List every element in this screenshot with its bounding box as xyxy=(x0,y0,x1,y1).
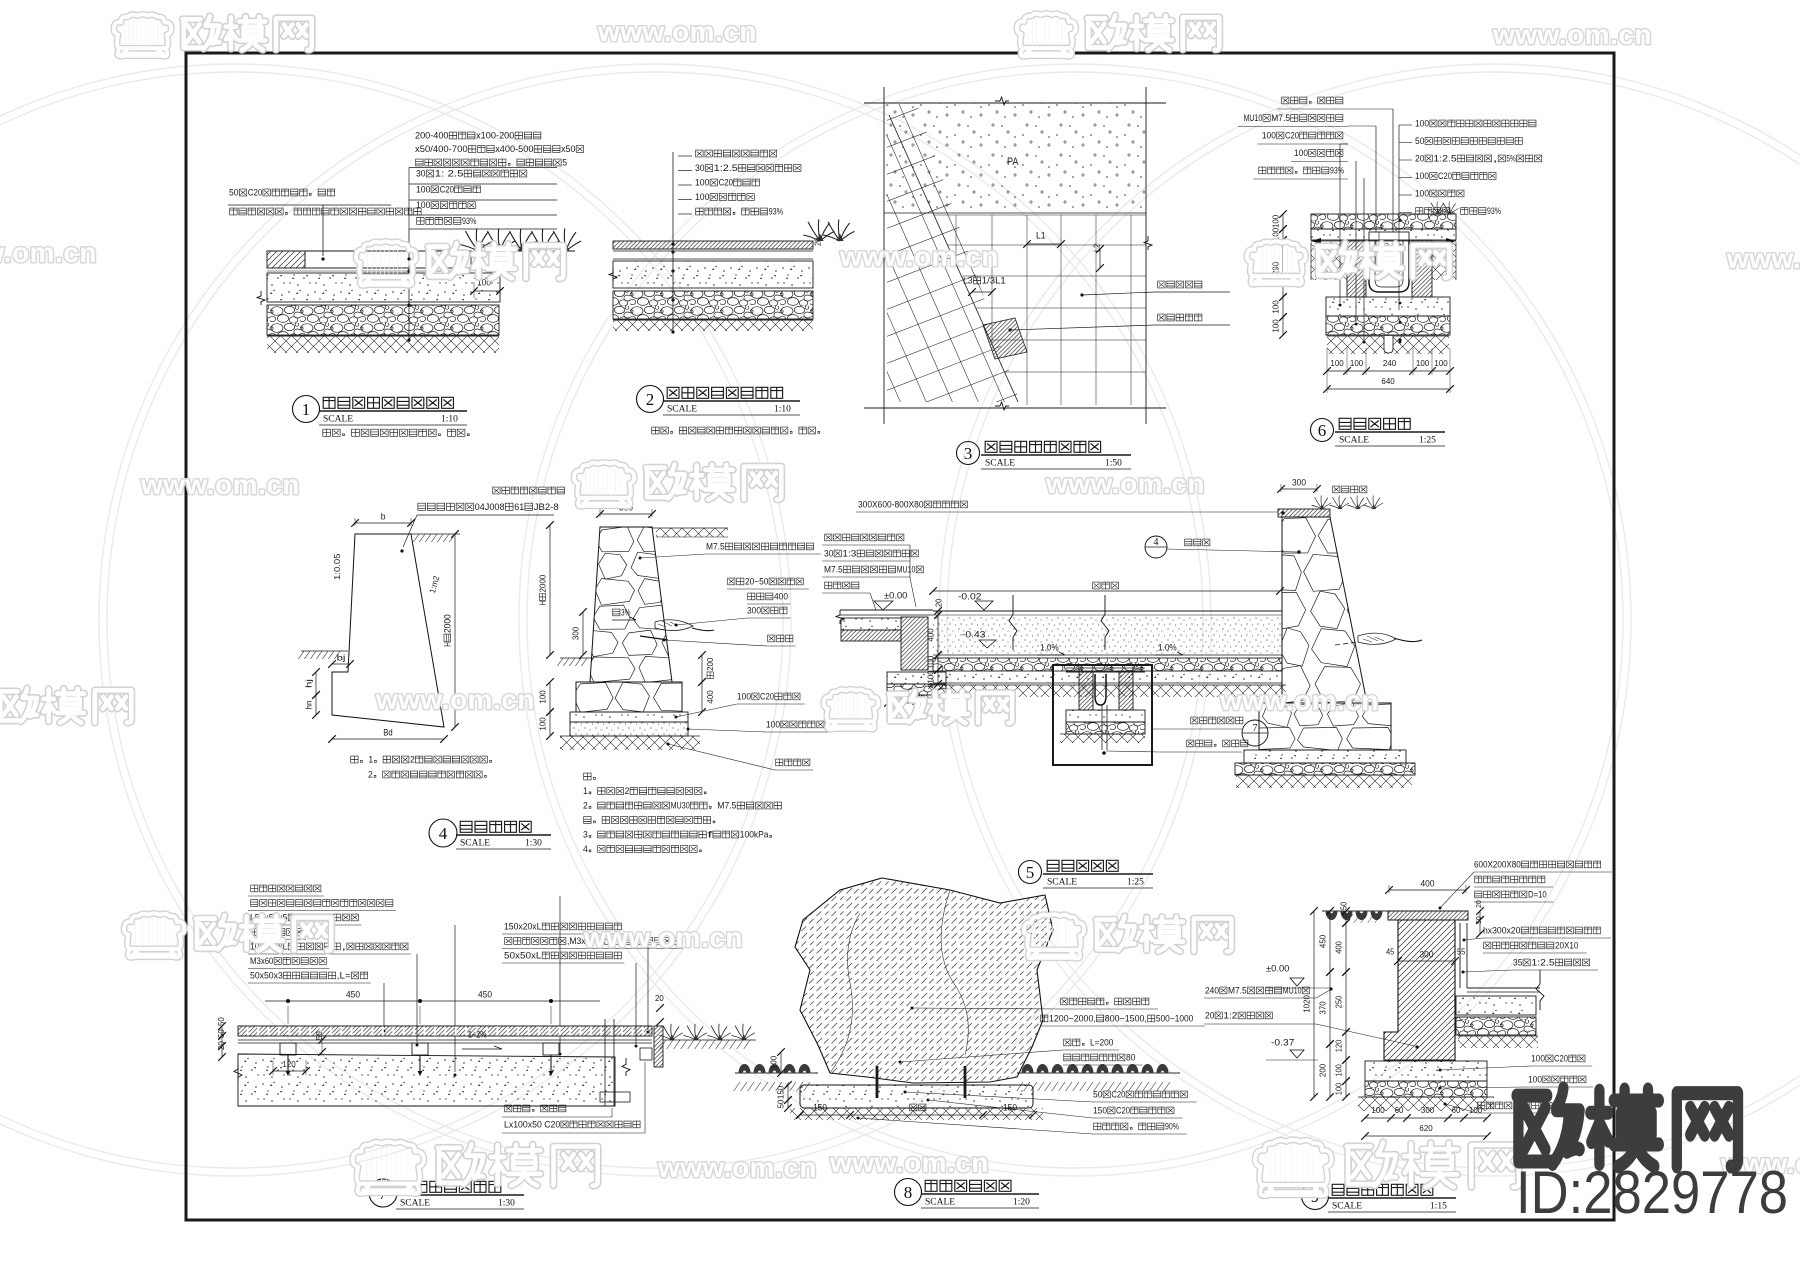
grass xyxy=(505,229,538,252)
svg-text:100: 100 xyxy=(1330,358,1344,368)
svg-text:C20: C20 xyxy=(1111,1089,1125,1099)
svg-text:1:15: 1:15 xyxy=(1430,1202,1447,1212)
ground line xyxy=(1311,240,1456,242)
drain pipes xyxy=(604,1019,606,1106)
svg-text:1020: 1020 xyxy=(1301,995,1311,1013)
svg-text:90%: 90% xyxy=(1165,1121,1179,1131)
svg-text:100: 100 xyxy=(1270,319,1280,333)
svg-text:50: 50 xyxy=(775,1099,785,1108)
svg-text:500~1000: 500~1000 xyxy=(1156,1013,1193,1023)
svg-text:b: b xyxy=(381,511,386,521)
svg-text:93%: 93% xyxy=(769,207,783,217)
concrete slab xyxy=(238,1054,615,1106)
svg-text:L1: L1 xyxy=(1036,231,1046,241)
svg-text:300: 300 xyxy=(1420,949,1434,959)
svg-text:450: 450 xyxy=(478,989,492,999)
svg-text:50: 50 xyxy=(216,1017,226,1026)
svg-text:240: 240 xyxy=(1383,358,1397,368)
joists and bolts xyxy=(280,1043,296,1055)
svg-text:400: 400 xyxy=(1334,941,1343,954)
svg-text:www.om.cn: www.om.cn xyxy=(583,922,743,953)
svg-text:400: 400 xyxy=(705,690,715,704)
title 4 xyxy=(429,819,457,847)
svg-text:100: 100 xyxy=(1270,300,1280,314)
svg-text:300: 300 xyxy=(747,605,761,615)
svg-text:5: 5 xyxy=(1026,863,1035,882)
svg-text:1:25: 1:25 xyxy=(1419,436,1436,446)
svg-text:1:2.5: 1:2.5 xyxy=(1531,957,1554,967)
svg-text:1:2.5: 1:2.5 xyxy=(1433,153,1456,163)
wall body xyxy=(1384,920,1455,1060)
detail 6: sandpit drainage channel xyxy=(1282,97,1343,104)
svg-text:1: 1 xyxy=(368,755,373,765)
steel pins xyxy=(876,1066,879,1098)
detail 3: paving enlarged plan xyxy=(864,102,1166,104)
grass xyxy=(461,229,494,252)
svg-text:x100-200: x100-200 xyxy=(476,131,514,141)
svg-text:450: 450 xyxy=(1317,935,1327,949)
svg-text:55: 55 xyxy=(1457,948,1466,957)
svg-text:,L=: ,L= xyxy=(337,970,351,980)
svg-text:50: 50 xyxy=(1093,1089,1102,1099)
svg-text:1: 1 xyxy=(583,786,588,796)
title 9 xyxy=(1302,1183,1329,1210)
svg-text:100: 100 xyxy=(1334,1064,1343,1077)
svg-text:7: 7 xyxy=(1253,723,1258,734)
ground line right xyxy=(411,533,460,535)
svg-text:Lx100x50 C20: Lx100x50 C20 xyxy=(504,1119,560,1129)
svg-text:100: 100 xyxy=(768,1056,778,1070)
mortar layer xyxy=(267,267,471,269)
concrete pad xyxy=(800,1085,1033,1108)
svg-text:60: 60 xyxy=(1395,1105,1404,1115)
svg-text:50: 50 xyxy=(314,1031,324,1040)
svg-text:4: 4 xyxy=(1154,537,1159,548)
svg-text:45: 45 xyxy=(1386,948,1395,957)
svg-text:1:50: 1:50 xyxy=(1105,459,1122,469)
svg-text:150: 150 xyxy=(1003,1102,1017,1112)
svg-text:L3: L3 xyxy=(963,276,973,286)
title 5 xyxy=(1019,861,1042,884)
svg-text:M3x60: M3x60 xyxy=(250,956,273,966)
cap stone xyxy=(1388,911,1468,920)
concrete pad xyxy=(570,712,688,722)
compacted soil xyxy=(267,336,499,353)
svg-text:50x50xL: 50x50xL xyxy=(504,950,541,960)
cover plate xyxy=(1369,232,1409,240)
svg-text:-0.37: -0.37 xyxy=(1271,1037,1294,1047)
svg-text:150x20xL: 150x20xL xyxy=(504,921,541,931)
svg-text:50: 50 xyxy=(216,1029,226,1038)
sand pit xyxy=(933,590,1280,592)
svg-text:50: 50 xyxy=(1340,901,1349,910)
svg-text:D=10: D=10 xyxy=(1528,889,1547,899)
ground line left xyxy=(301,650,348,652)
svg-text:100: 100 xyxy=(695,178,709,188)
svg-text:-0.02: -0.02 xyxy=(958,591,981,601)
crushed stone xyxy=(613,291,813,319)
svg-text:1:25: 1:25 xyxy=(1127,878,1144,888)
drain pipe xyxy=(1384,336,1393,353)
svg-text:370: 370 xyxy=(1317,1001,1327,1015)
svg-text:5%: 5% xyxy=(1506,153,1515,163)
svg-text:SCALE: SCALE xyxy=(1332,1202,1362,1212)
dark site watermark xyxy=(1517,1088,1738,1166)
svg-text:100: 100 xyxy=(416,200,430,210)
svg-text:400: 400 xyxy=(774,591,788,601)
svg-text:SCALE: SCALE xyxy=(985,459,1015,469)
svg-text:www.om.cn: www.om.cn xyxy=(1492,19,1652,50)
svg-text:MU10: MU10 xyxy=(897,564,916,574)
svg-text:±0.00: ±0.00 xyxy=(884,590,907,600)
soil beside trench xyxy=(1311,242,1347,280)
stone retaining wall section xyxy=(600,513,652,515)
grass xyxy=(549,229,582,252)
pavement concrete band xyxy=(1311,229,1456,240)
weep hole & clay pocket xyxy=(640,636,668,640)
title 8 xyxy=(895,1179,922,1206)
svg-text:1200~2000,: 1200~2000, xyxy=(1049,1013,1096,1023)
dims xyxy=(355,522,411,524)
surface slate band xyxy=(267,250,575,252)
svg-text:,: , xyxy=(341,941,346,951)
svg-text:100: 100 xyxy=(1416,358,1430,368)
title 1 xyxy=(293,396,320,423)
crushed stone layer xyxy=(267,305,499,335)
svg-text:www.om.cn: www.om.cn xyxy=(1726,243,1800,274)
svg-text:200: 200 xyxy=(705,657,715,671)
svg-text:1:30: 1:30 xyxy=(498,1199,515,1209)
svg-text:SCALE: SCALE xyxy=(925,1198,955,1208)
svg-text:640: 640 xyxy=(1381,376,1395,386)
svg-text:SCALE: SCALE xyxy=(1339,436,1369,446)
svg-text:30: 30 xyxy=(416,169,426,179)
svg-text:±0.00: ±0.00 xyxy=(1266,963,1289,973)
svg-text:61: 61 xyxy=(514,502,524,513)
pavement stone band xyxy=(1311,214,1456,229)
detail 8: landscape rock detail xyxy=(795,878,1053,1083)
svg-text:-0.43: -0.43 xyxy=(962,629,985,639)
svg-text:8: 8 xyxy=(904,1183,913,1202)
concrete pad xyxy=(1326,297,1450,316)
svg-text:hj: hj xyxy=(303,679,313,688)
svg-text:100: 100 xyxy=(1262,130,1276,140)
svg-text:3%: 3% xyxy=(621,607,630,617)
svg-text:PA: PA xyxy=(1007,156,1019,168)
svg-text:L=200: L=200 xyxy=(1090,1037,1113,1047)
hatched plate xyxy=(983,318,1027,359)
svg-text:bj: bj xyxy=(337,653,346,663)
svg-text:2: 2 xyxy=(583,801,588,811)
dim chains xyxy=(1282,214,1284,229)
sheet border frame xyxy=(186,53,1614,1220)
left pavement layers xyxy=(841,618,901,630)
svg-text:M7.5: M7.5 xyxy=(1271,113,1290,123)
svg-text:JB2-8: JB2-8 xyxy=(534,502,559,513)
svg-text:C20: C20 xyxy=(1554,1053,1568,1063)
svg-text:4: 4 xyxy=(439,824,448,843)
svg-text:C20: C20 xyxy=(440,184,454,194)
svg-text:150: 150 xyxy=(813,1102,827,1112)
soil xyxy=(560,736,700,750)
svg-text:20: 20 xyxy=(935,598,944,607)
svg-text:80: 80 xyxy=(1126,1052,1135,1062)
svg-text:SCALE: SCALE xyxy=(323,415,353,425)
title 3 xyxy=(957,442,980,465)
svg-text:20X10: 20X10 xyxy=(1555,940,1578,950)
svg-text:2: 2 xyxy=(368,770,373,780)
svg-text:ID:2829778: ID:2829778 xyxy=(1516,1159,1788,1226)
svg-text:,: , xyxy=(1493,153,1498,163)
svg-text:50: 50 xyxy=(229,188,239,198)
U channel xyxy=(1369,240,1409,292)
svg-text:2000: 2000 xyxy=(537,574,547,592)
svg-text:www.om.cn: www.om.cn xyxy=(829,1147,989,1178)
svg-text:MU30: MU30 xyxy=(671,801,690,811)
PA planting area xyxy=(884,103,1146,213)
svg-text:1:2.5: 1:2.5 xyxy=(714,163,738,173)
left ground xyxy=(735,1072,818,1074)
svg-text:www.om.cn: www.om.cn xyxy=(1045,468,1205,499)
svg-text:1: 2.5: 1: 2.5 xyxy=(435,169,464,179)
svg-text:3: 3 xyxy=(964,444,973,463)
svg-text:20: 20 xyxy=(1474,900,1483,908)
concrete xyxy=(613,261,813,288)
detail 4: retaining wall diagram xyxy=(493,487,565,494)
svg-text:1: 1 xyxy=(302,400,311,419)
svg-text:www.om.cn: www.om.cn xyxy=(597,16,757,47)
svg-text:SCALE: SCALE xyxy=(667,405,697,415)
svg-text:250: 250 xyxy=(1334,995,1343,1008)
svg-text:620: 620 xyxy=(1419,1123,1433,1133)
mortar xyxy=(613,250,813,252)
svg-text:2: 2 xyxy=(625,786,630,796)
svg-text:100: 100 xyxy=(766,719,780,729)
svg-text:200-400: 200-400 xyxy=(415,131,449,141)
svg-text:04J008: 04J008 xyxy=(475,502,505,513)
svg-text:1:10: 1:10 xyxy=(774,405,791,415)
svg-text:100: 100 xyxy=(537,690,547,704)
svg-text:30: 30 xyxy=(695,163,705,173)
svg-text:www.om.cn: www.om.cn xyxy=(140,469,300,500)
svg-text:1:30: 1:30 xyxy=(525,839,542,849)
svg-text:hn: hn xyxy=(303,700,313,709)
svg-text:H: H xyxy=(537,601,547,605)
svg-text:120: 120 xyxy=(1334,1039,1343,1052)
svg-text:6: 6 xyxy=(1318,421,1327,440)
svg-text:4: 4 xyxy=(583,844,588,854)
soil xyxy=(613,320,813,331)
deck boards xyxy=(238,1026,652,1036)
grass xyxy=(483,229,516,252)
svg-text:SCALE: SCALE xyxy=(1047,878,1077,888)
edge brick beam xyxy=(901,617,928,670)
svg-text:MU10: MU10 xyxy=(1244,113,1263,123)
svg-text:50x50x3: 50x50x3 xyxy=(250,970,283,980)
svg-text:2: 2 xyxy=(410,755,415,765)
svg-text:100: 100 xyxy=(1334,1082,1343,1095)
svg-text:M7.5: M7.5 xyxy=(706,541,725,551)
right stone wall xyxy=(1281,488,1317,490)
svg-text:1:10: 1:10 xyxy=(441,415,458,425)
svg-text:400: 400 xyxy=(925,628,935,642)
title 6 xyxy=(1311,419,1334,442)
svg-text:800~1500,: 800~1500, xyxy=(1105,1013,1147,1023)
footing xyxy=(1365,1061,1487,1081)
svg-text:100: 100 xyxy=(1270,215,1280,229)
svg-text:C20: C20 xyxy=(1116,1105,1130,1115)
svg-text:50: 50 xyxy=(1474,916,1483,924)
svg-text:300: 300 xyxy=(1292,477,1306,487)
svg-text:100: 100 xyxy=(1469,1105,1483,1115)
svg-text:20~50: 20~50 xyxy=(745,576,768,586)
svg-text:1:2: 1:2 xyxy=(1223,1010,1237,1020)
svg-text:100: 100 xyxy=(1415,118,1429,128)
soil xyxy=(1327,336,1449,354)
svg-text:100: 100 xyxy=(537,717,547,731)
svg-text:300: 300 xyxy=(1421,1105,1435,1115)
svg-text:150: 150 xyxy=(775,1086,785,1100)
svg-text:1.0%: 1.0% xyxy=(1040,642,1059,652)
svg-text:www.om.cn: www.om.cn xyxy=(375,684,535,715)
svg-text:1/3L1: 1/3L1 xyxy=(982,276,1006,286)
svg-text:100: 100 xyxy=(1350,358,1364,368)
svg-text:2000: 2000 xyxy=(442,614,452,633)
svg-text:100: 100 xyxy=(1415,171,1429,181)
detail 9: planter detail xyxy=(1389,889,1466,891)
svg-text:x50/400-700: x50/400-700 xyxy=(415,144,468,154)
svg-text:hx300x20: hx300x20 xyxy=(1483,925,1520,935)
svg-text:www.om.cn: www.om.cn xyxy=(839,241,999,272)
svg-text:93%: 93% xyxy=(1330,165,1344,175)
svg-text:C20: C20 xyxy=(1285,130,1299,140)
concrete layer xyxy=(267,273,500,302)
svg-text:3: 3 xyxy=(583,830,588,840)
detail 7: wood deck section xyxy=(251,885,321,892)
svg-text:100: 100 xyxy=(1528,1074,1542,1084)
svg-text:100: 100 xyxy=(1371,1105,1385,1115)
svg-text:f: f xyxy=(707,830,713,840)
svg-text:35: 35 xyxy=(1513,957,1522,967)
svg-text:400: 400 xyxy=(1421,878,1435,888)
svg-text:30: 30 xyxy=(824,548,833,558)
stone bed xyxy=(1326,316,1450,335)
svg-text:1:20: 1:20 xyxy=(1013,1198,1030,1208)
svg-text:100: 100 xyxy=(925,656,935,670)
svg-text:100: 100 xyxy=(737,691,751,701)
svg-text:C20: C20 xyxy=(248,188,262,198)
svg-text:300: 300 xyxy=(570,627,580,641)
watermark arcs xyxy=(0,64,791,1176)
paving grid xyxy=(935,214,1147,216)
svg-text:C20: C20 xyxy=(719,178,733,188)
svg-text:www.om.cn: www.om.cn xyxy=(1219,685,1379,716)
svg-text:x50: x50 xyxy=(561,144,575,154)
drain box window xyxy=(1053,665,1152,765)
svg-text:450: 450 xyxy=(346,989,360,999)
svg-text:50: 50 xyxy=(1415,136,1424,146)
svg-text:100: 100 xyxy=(1531,1053,1545,1063)
svg-text:100: 100 xyxy=(1294,148,1308,158)
svg-text:93%: 93% xyxy=(462,216,476,226)
svg-text:1:3: 1:3 xyxy=(842,548,856,558)
title 7 xyxy=(369,1179,397,1207)
svg-text:100kPa: 100kPa xyxy=(740,830,770,840)
svg-text:M7.5: M7.5 xyxy=(1228,985,1247,995)
svg-text:20: 20 xyxy=(1205,1010,1214,1020)
svg-text:H: H xyxy=(442,642,452,647)
grass xyxy=(527,229,560,252)
svg-text:100: 100 xyxy=(416,184,430,194)
svg-text:SCALE: SCALE xyxy=(400,1199,430,1209)
left pavement block xyxy=(840,609,933,611)
svg-text:100: 100 xyxy=(1415,188,1429,198)
retained soil right xyxy=(652,527,728,529)
svg-text:150: 150 xyxy=(1093,1105,1107,1115)
channel walls xyxy=(1347,240,1366,297)
svg-text:Bd: Bd xyxy=(383,727,392,737)
svg-text:1:0.05: 1:0.05 xyxy=(332,553,342,580)
light watermarks xyxy=(114,14,312,56)
svg-text:240: 240 xyxy=(1205,985,1219,995)
detail 2: pedestrian paving section xyxy=(696,150,777,157)
svg-text:100: 100 xyxy=(925,670,935,684)
edge board xyxy=(654,1026,663,1067)
svg-text:www.om.cn: www.om.cn xyxy=(0,237,97,268)
detail 5: sandpit section xyxy=(825,534,904,541)
svg-text:20: 20 xyxy=(216,1041,226,1050)
svg-text:100: 100 xyxy=(1434,358,1448,368)
svg-text:20: 20 xyxy=(814,237,823,246)
svg-text:93%: 93% xyxy=(1487,206,1501,216)
svg-text:20: 20 xyxy=(655,993,664,1003)
svg-text:C20: C20 xyxy=(760,691,774,701)
title 2 xyxy=(637,386,664,413)
svg-text:MU10: MU10 xyxy=(1283,985,1302,995)
svg-text:600X200X80: 600X200X80 xyxy=(1474,859,1521,869)
wall profile trapezoid xyxy=(332,534,444,727)
svg-text:100: 100 xyxy=(695,192,709,202)
svg-text:5: 5 xyxy=(562,158,567,168)
svg-text:2: 2 xyxy=(646,390,655,409)
svg-text:1~2%: 1~2% xyxy=(468,1029,487,1039)
svg-text:300X600-800X80: 300X600-800X80 xyxy=(858,499,924,509)
svg-text:www.om.cn: www.om.cn xyxy=(657,1152,817,1183)
gravel bed xyxy=(570,722,688,736)
svg-text:1.0%: 1.0% xyxy=(1158,642,1177,652)
svg-text:x400-500: x400-500 xyxy=(495,144,533,154)
svg-text:M7.5: M7.5 xyxy=(824,564,843,574)
edge footing xyxy=(887,672,946,684)
svg-text:M7.5: M7.5 xyxy=(717,801,736,811)
svg-text:C20: C20 xyxy=(1438,171,1452,181)
surface layer xyxy=(613,241,813,249)
right pavement xyxy=(1467,987,1540,989)
svg-text:120: 120 xyxy=(282,1059,296,1069)
svg-text:SCALE: SCALE xyxy=(460,839,490,849)
right ground xyxy=(1017,1072,1180,1074)
svg-text:200: 200 xyxy=(1317,1064,1327,1078)
svg-text:20: 20 xyxy=(1415,153,1424,163)
